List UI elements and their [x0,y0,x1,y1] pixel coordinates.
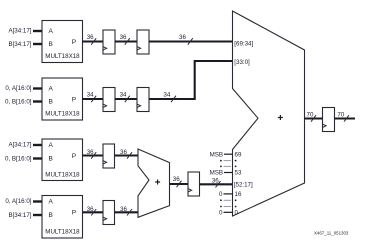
bus slash [127,209,132,216]
svg-text:P: P [72,96,76,103]
MULT18X18 U3 [42,139,83,181]
wire stub U1 B [33,43,42,45]
svg-text:36: 36 [179,34,186,41]
svg-text:34: 34 [120,92,127,99]
wire stub U2 A [33,87,42,89]
register R5 [103,144,115,168]
bus slash [91,38,96,45]
wire adder A2 output to register R8 [305,117,323,119]
wire R1 to R2 [115,40,137,42]
ellipsis dots row [220,160,237,162]
svg-text:X467_11_051303: X467_11_051303 [314,230,349,235]
wire U4 P to register R6 [83,211,104,213]
adder A1 (partial products) [138,149,170,217]
bus slash [127,152,132,159]
svg-text:36: 36 [120,34,127,41]
wire R2 to adder input [69:34] [149,40,233,42]
svg-text:MSB: MSB [210,151,223,158]
svg-text:A: A [49,142,54,149]
bus slash [91,209,96,216]
svg-text:B: B [49,156,53,163]
bus slash [91,96,96,103]
bus slash [216,181,221,188]
svg-text:70: 70 [337,112,344,119]
wire adder A1 to register R7 [170,183,189,185]
register R4 [137,88,149,112]
svg-text:B: B [49,99,53,106]
svg-text:0: 0 [235,210,239,217]
svg-text:B[34:17]: B[34:17] [8,41,31,48]
svg-text:34: 34 [87,92,94,99]
svg-text:0, A[16:0]: 0, A[16:0] [5,85,31,92]
wire R7 to big adder input [52:17] [200,183,233,185]
bus slash [171,96,176,103]
svg-text:34: 34 [163,92,170,99]
svg-text:36: 36 [173,176,180,183]
bus slash [177,181,182,188]
MULT18X18 U4 [42,196,83,239]
svg-text:36: 36 [87,34,94,41]
ellipsis dots row [220,166,237,168]
ellipsis dots row [220,199,237,201]
svg-text:0, B[16:0]: 0, B[16:0] [5,156,32,163]
bus slash [344,115,349,122]
svg-text:53: 53 [235,170,242,177]
MULT18X18 U1 [42,21,83,63]
svg-text:A: A [49,28,54,35]
MULT18X18 U2 [42,78,83,120]
wire stub U2 B [33,100,42,102]
svg-text:36: 36 [212,177,219,184]
wire stub U3 A [33,144,42,146]
svg-text:MULT18X18: MULT18X18 [45,172,80,179]
svg-text:16: 16 [235,191,242,198]
svg-text:P: P [72,209,76,216]
wire R3 to R4 [115,98,137,100]
register R6 [103,201,115,225]
svg-text:A: A [49,86,54,93]
svg-text:P: P [72,153,76,160]
svg-text:70: 70 [307,112,314,119]
wire stub U4 A [33,200,42,202]
svg-text:B: B [49,41,53,48]
ellipsis dots row [220,206,237,208]
wire R8 to 70-bit output [335,117,356,119]
register R1 [103,30,115,54]
wire stub U3 B [33,157,42,159]
svg-text:[69:34]: [69:34] [234,40,253,47]
svg-text:[33:0]: [33:0] [234,59,250,66]
wire R4 to adder input [33:0] (with riser) [149,61,233,99]
svg-text:B: B [49,212,53,219]
svg-text:69: 69 [235,151,242,158]
register R7 [188,172,200,196]
wire U2 P to register R3 [83,98,104,100]
svg-text:0, B[16:0]: 0, B[16:0] [5,99,32,106]
svg-text:0: 0 [219,210,223,217]
svg-text:36: 36 [87,206,94,213]
wire U1 P to register R1 [83,40,104,42]
wire U3 P to register R5 [83,154,104,156]
bus slash [311,115,316,122]
register R2 [137,30,149,54]
svg-text:36: 36 [87,149,94,156]
svg-text:0, A[16:0]: 0, A[16:0] [5,198,31,205]
bus slash [188,38,193,45]
svg-text:36: 36 [120,149,127,156]
wire stub U1 A [33,30,42,32]
wire R5 to small adder top input [115,154,139,156]
svg-text:MULT18X18: MULT18X18 [45,229,80,236]
bus slash [125,38,130,45]
svg-text:MULT18X18: MULT18X18 [45,53,80,60]
adder A2 (final 70-bit add) [233,11,305,216]
wire stub 0 to bit 0 [224,211,233,213]
bus slash [91,152,96,159]
svg-text:A[34:17]: A[34:17] [8,28,31,35]
svg-text:A: A [49,199,54,206]
svg-text:B[34:17]: B[34:17] [8,212,31,219]
svg-text:P: P [72,39,76,46]
wire stub 0 to bit 16 [224,193,233,195]
wire R6 to small adder bottom input [115,211,139,213]
wire stub MSB to bit 53 [224,172,233,174]
svg-text:A[34:17]: A[34:17] [8,142,31,149]
wire stub U4 B [33,214,42,216]
register R8 (output register) [323,108,335,132]
bus slash [125,96,130,103]
svg-text:MULT18X18: MULT18X18 [45,111,80,118]
wire stub MSB to bit 69 [224,153,233,155]
svg-text:MSB: MSB [210,170,223,177]
svg-text:36: 36 [120,206,127,213]
svg-text:[52:17]: [52:17] [234,182,253,189]
svg-text:0: 0 [219,191,223,198]
register R3 [103,88,115,112]
